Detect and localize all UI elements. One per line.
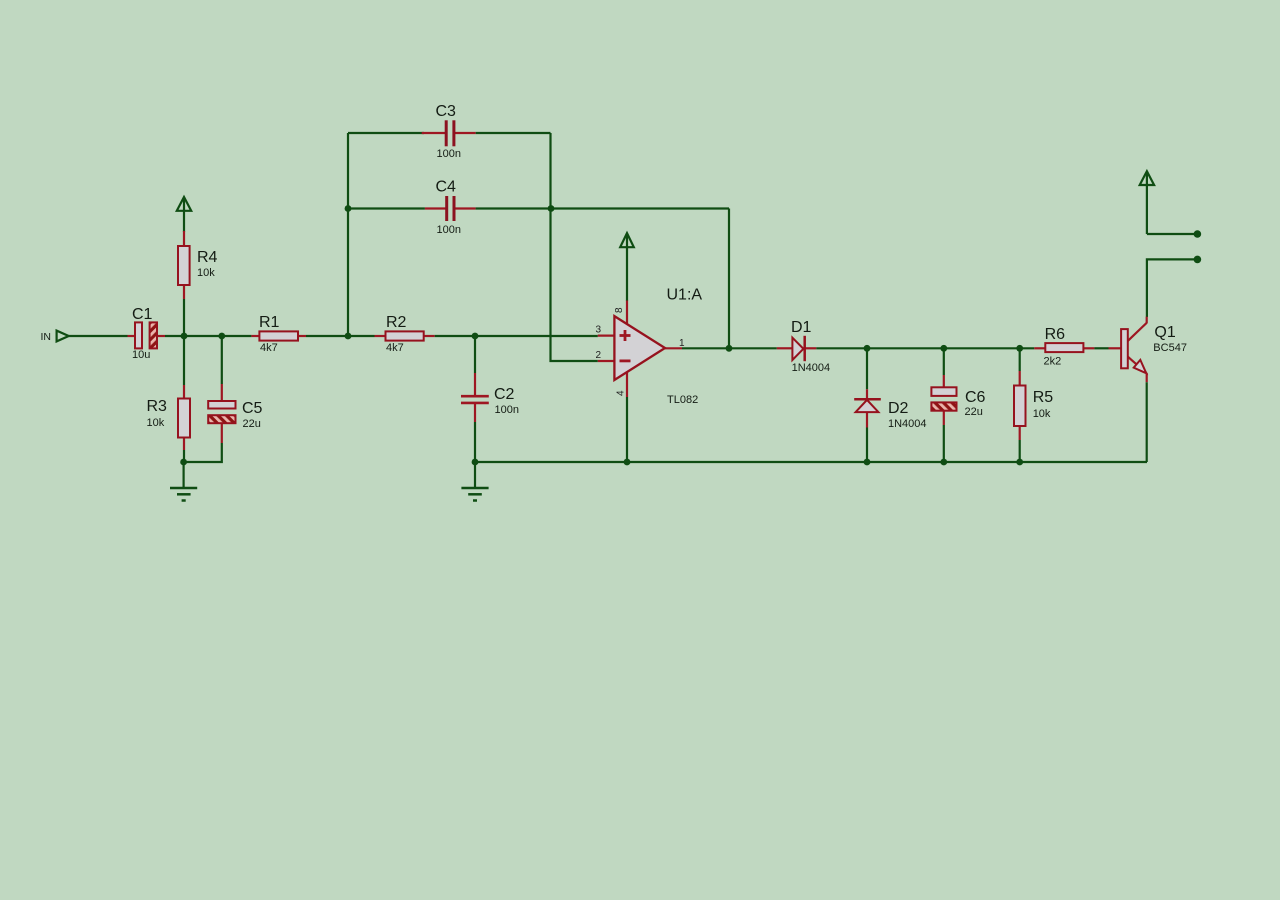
wire C6 to rail — [943, 425, 945, 462]
wire D2 to rail — [866, 428, 868, 463]
svg-text:D2: D2 — [888, 400, 909, 417]
wire R3 to ground node — [183, 450, 185, 462]
wire node to C5 — [221, 336, 223, 384]
node rail R5 — [1016, 459, 1023, 466]
svg-text:C1: C1 — [132, 306, 153, 323]
wire D1 to R6 — [816, 347, 1034, 349]
node VCC stub end — [1194, 230, 1202, 238]
wire C4 row right — [476, 207, 729, 209]
svg-text:22u: 22u — [243, 418, 261, 430]
svg-text:4: 4 — [616, 390, 627, 396]
wire C3 row right — [476, 132, 551, 134]
wire collector stub — [1147, 259, 1198, 317]
svg-text:R4: R4 — [197, 249, 218, 266]
op-amp U1 — [595, 287, 702, 407]
svg-text:100n: 100n — [437, 224, 461, 236]
svg-text:4k7: 4k7 — [386, 342, 404, 354]
node C2 top — [472, 333, 479, 340]
wire IN to C1 — [69, 335, 128, 337]
node R5 top — [1016, 345, 1023, 352]
wire C5 bottom horizontal — [184, 443, 222, 462]
wire C4 row left — [348, 207, 425, 209]
wire C2 to rail — [474, 422, 476, 462]
node ground left — [180, 459, 187, 466]
svg-text:C2: C2 — [494, 386, 515, 403]
svg-text:1N4004: 1N4004 — [792, 362, 831, 374]
node C5 top — [218, 333, 225, 340]
node rail pin4 — [624, 459, 631, 466]
wire inverting drop — [551, 209, 598, 362]
svg-text:1N4004: 1N4004 — [888, 418, 927, 430]
svg-text:Q1: Q1 — [1154, 324, 1175, 341]
svg-text:R3: R3 — [147, 398, 168, 415]
diode D1 — [777, 319, 830, 374]
node C6 top — [940, 345, 947, 352]
ground left — [170, 462, 197, 501]
wire node to D2 — [866, 348, 868, 389]
wire R6 to Q1 base — [1094, 347, 1108, 349]
node rail D2 — [864, 459, 871, 466]
svg-text:R6: R6 — [1045, 326, 1066, 343]
svg-text:100n: 100n — [437, 148, 461, 160]
svg-text:IN: IN — [41, 331, 52, 343]
svg-text:3: 3 — [595, 325, 601, 336]
node C4 right — [548, 205, 555, 212]
svg-text:C3: C3 — [436, 103, 457, 120]
wire out up to C4 row — [728, 209, 730, 349]
svg-text:D1: D1 — [791, 319, 812, 336]
wire feedback vertical — [347, 133, 349, 336]
transistor Q1 — [1109, 317, 1187, 383]
svg-text:C5: C5 — [242, 400, 263, 417]
power arrow VCC left — [177, 197, 191, 232]
terminal IN — [41, 331, 69, 343]
svg-text:BC547: BC547 — [1153, 342, 1187, 354]
wire op-amp out — [682, 347, 777, 349]
svg-text:U1:A: U1:A — [667, 287, 703, 304]
capacitor C3 — [422, 103, 476, 160]
power arrow VCC op-amp — [620, 233, 634, 301]
node collector stub end — [1194, 256, 1202, 264]
wire node to R3 — [183, 336, 185, 385]
wire R1 to node A — [306, 335, 375, 337]
capacitor C2 — [461, 373, 519, 422]
svg-text:10u: 10u — [132, 349, 150, 361]
svg-text:100n: 100n — [495, 404, 519, 416]
svg-text:R2: R2 — [386, 314, 407, 331]
svg-text:R5: R5 — [1033, 389, 1054, 406]
power arrow VCC right — [1140, 171, 1154, 234]
svg-text:2: 2 — [595, 350, 601, 361]
node D2 top — [864, 345, 871, 352]
node out — [726, 345, 733, 352]
resistor R3 — [147, 385, 191, 450]
resistor R4 — [178, 231, 218, 299]
svg-text:R1: R1 — [259, 314, 280, 331]
capacitor C5 — [208, 384, 262, 443]
resistor R1 — [251, 314, 306, 354]
wire node to C6 — [943, 348, 945, 375]
wire C3 row left — [348, 132, 424, 134]
svg-text:4k7: 4k7 — [260, 342, 278, 354]
svg-text:10k: 10k — [1033, 408, 1051, 420]
bottom rail — [475, 461, 1147, 463]
resistor R5 — [1014, 371, 1053, 440]
capacitor C6 — [931, 375, 985, 425]
capacitor C1 — [128, 306, 166, 361]
wire R5 to rail — [1019, 440, 1021, 462]
svg-text:C6: C6 — [965, 389, 986, 406]
resistor R6 — [1034, 326, 1094, 368]
svg-text:2k2: 2k2 — [1044, 356, 1062, 368]
diode D2 — [854, 389, 926, 430]
svg-text:TL082: TL082 — [667, 394, 698, 406]
ground mid — [461, 462, 488, 501]
svg-text:10k: 10k — [197, 267, 215, 279]
wire C3-C4 vertical right — [549, 133, 551, 209]
svg-text:8: 8 — [614, 307, 625, 313]
svg-text:10k: 10k — [147, 417, 165, 429]
wire R2 to op-amp — [435, 335, 598, 337]
wire node to R5 — [1019, 348, 1021, 371]
wire VCC stub right — [1147, 233, 1198, 235]
node rail C6 — [940, 459, 947, 466]
svg-text:22u: 22u — [965, 406, 983, 418]
node rail C2 — [472, 459, 479, 466]
wire node to C2 — [474, 336, 476, 373]
wire pin4 to rail — [626, 397, 628, 462]
svg-text:C4: C4 — [436, 179, 457, 196]
node R4/input — [181, 333, 188, 340]
node C4 left — [345, 205, 352, 212]
resistor R2 — [375, 314, 435, 354]
wire C1 to R1 — [165, 335, 251, 337]
capacitor C4 — [425, 179, 476, 236]
node A feedback — [345, 333, 352, 340]
wire emitter to rail — [1146, 382, 1148, 462]
wire R4 to node — [183, 299, 185, 336]
